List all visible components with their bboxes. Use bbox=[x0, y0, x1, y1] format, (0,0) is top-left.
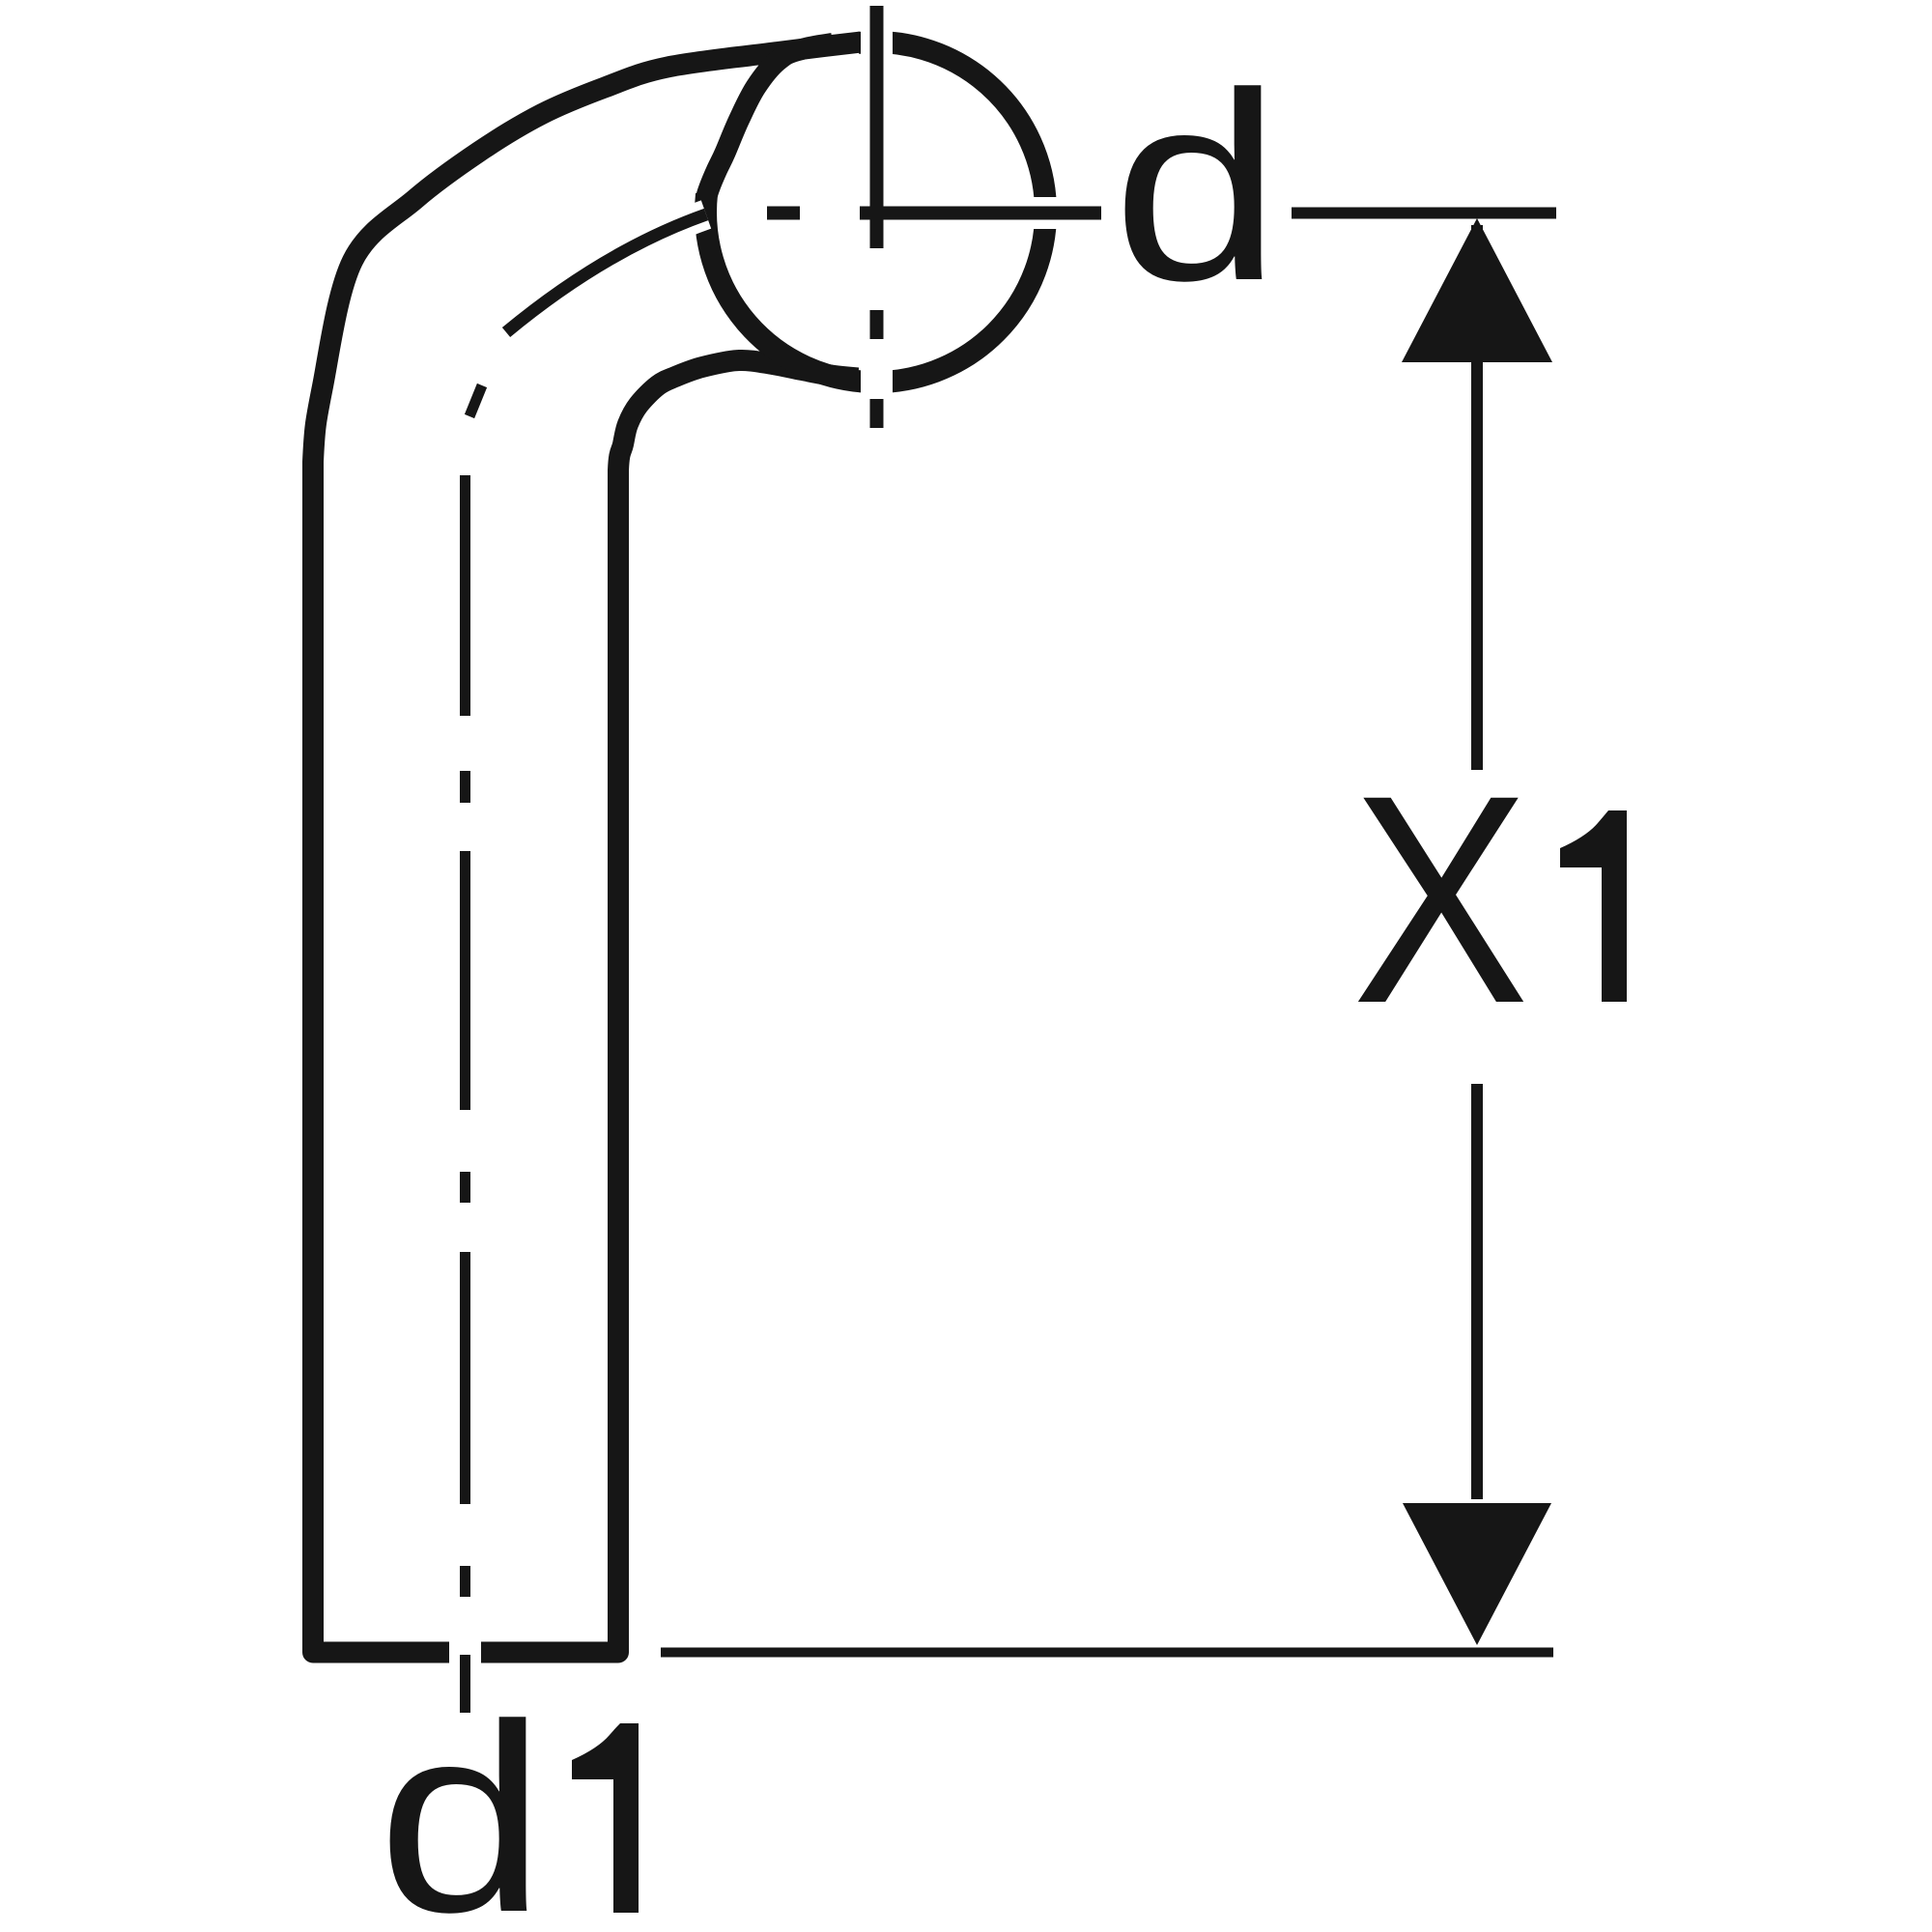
svg-text:d: d bbox=[1112, 38, 1281, 336]
pipe centreline casing (white halo through end cap) bbox=[449, 406, 481, 1719]
ground/base reference line bbox=[661, 1648, 1553, 1658]
label X1 (height dimension): X glyph bbox=[1352, 733, 1529, 1065]
socket rim curve (funnel edge from outer wall down to opening circle) bbox=[706, 43, 833, 199]
pipe outline: outer bend wall, vertical pipe walls, bottom end cap, inner bend wall bbox=[313, 43, 861, 1653]
pipe centreline dash-dot bbox=[466, 385, 483, 1713]
down arrowhead of X1 dimension bbox=[1403, 1503, 1551, 1645]
label d1 (pipe outer diameter): d glyph bbox=[377, 1669, 546, 1932]
label d (outer diameter of opening) bbox=[1112, 38, 1281, 336]
X1 dimension line (vertical, two segments) bbox=[1471, 225, 1483, 1499]
inner bore tangent curve bbox=[506, 214, 706, 332]
label d1: digit 1 (custom narrow-flag glyph) bbox=[572, 1723, 639, 1913]
label X1: digit 1 (custom narrow-flag glyph) bbox=[1560, 810, 1627, 1002]
opening circle (pipe end, diameter d) partial arc bbox=[706, 43, 1046, 383]
svg-text:d: d bbox=[377, 1669, 546, 1932]
dimension extension line for d (right of the circle) bbox=[1292, 208, 1556, 219]
vertical crosshair centreline of circle bbox=[870, 6, 884, 428]
inner bore tangent curve halo bbox=[506, 214, 706, 332]
horizontal crosshair centreline of circle bbox=[767, 207, 1101, 220]
svg-text:X: X bbox=[1352, 733, 1529, 1065]
crosshair casings (white halo) bbox=[767, 197, 1101, 229]
up arrowhead of X1 dimension bbox=[1402, 218, 1552, 362]
